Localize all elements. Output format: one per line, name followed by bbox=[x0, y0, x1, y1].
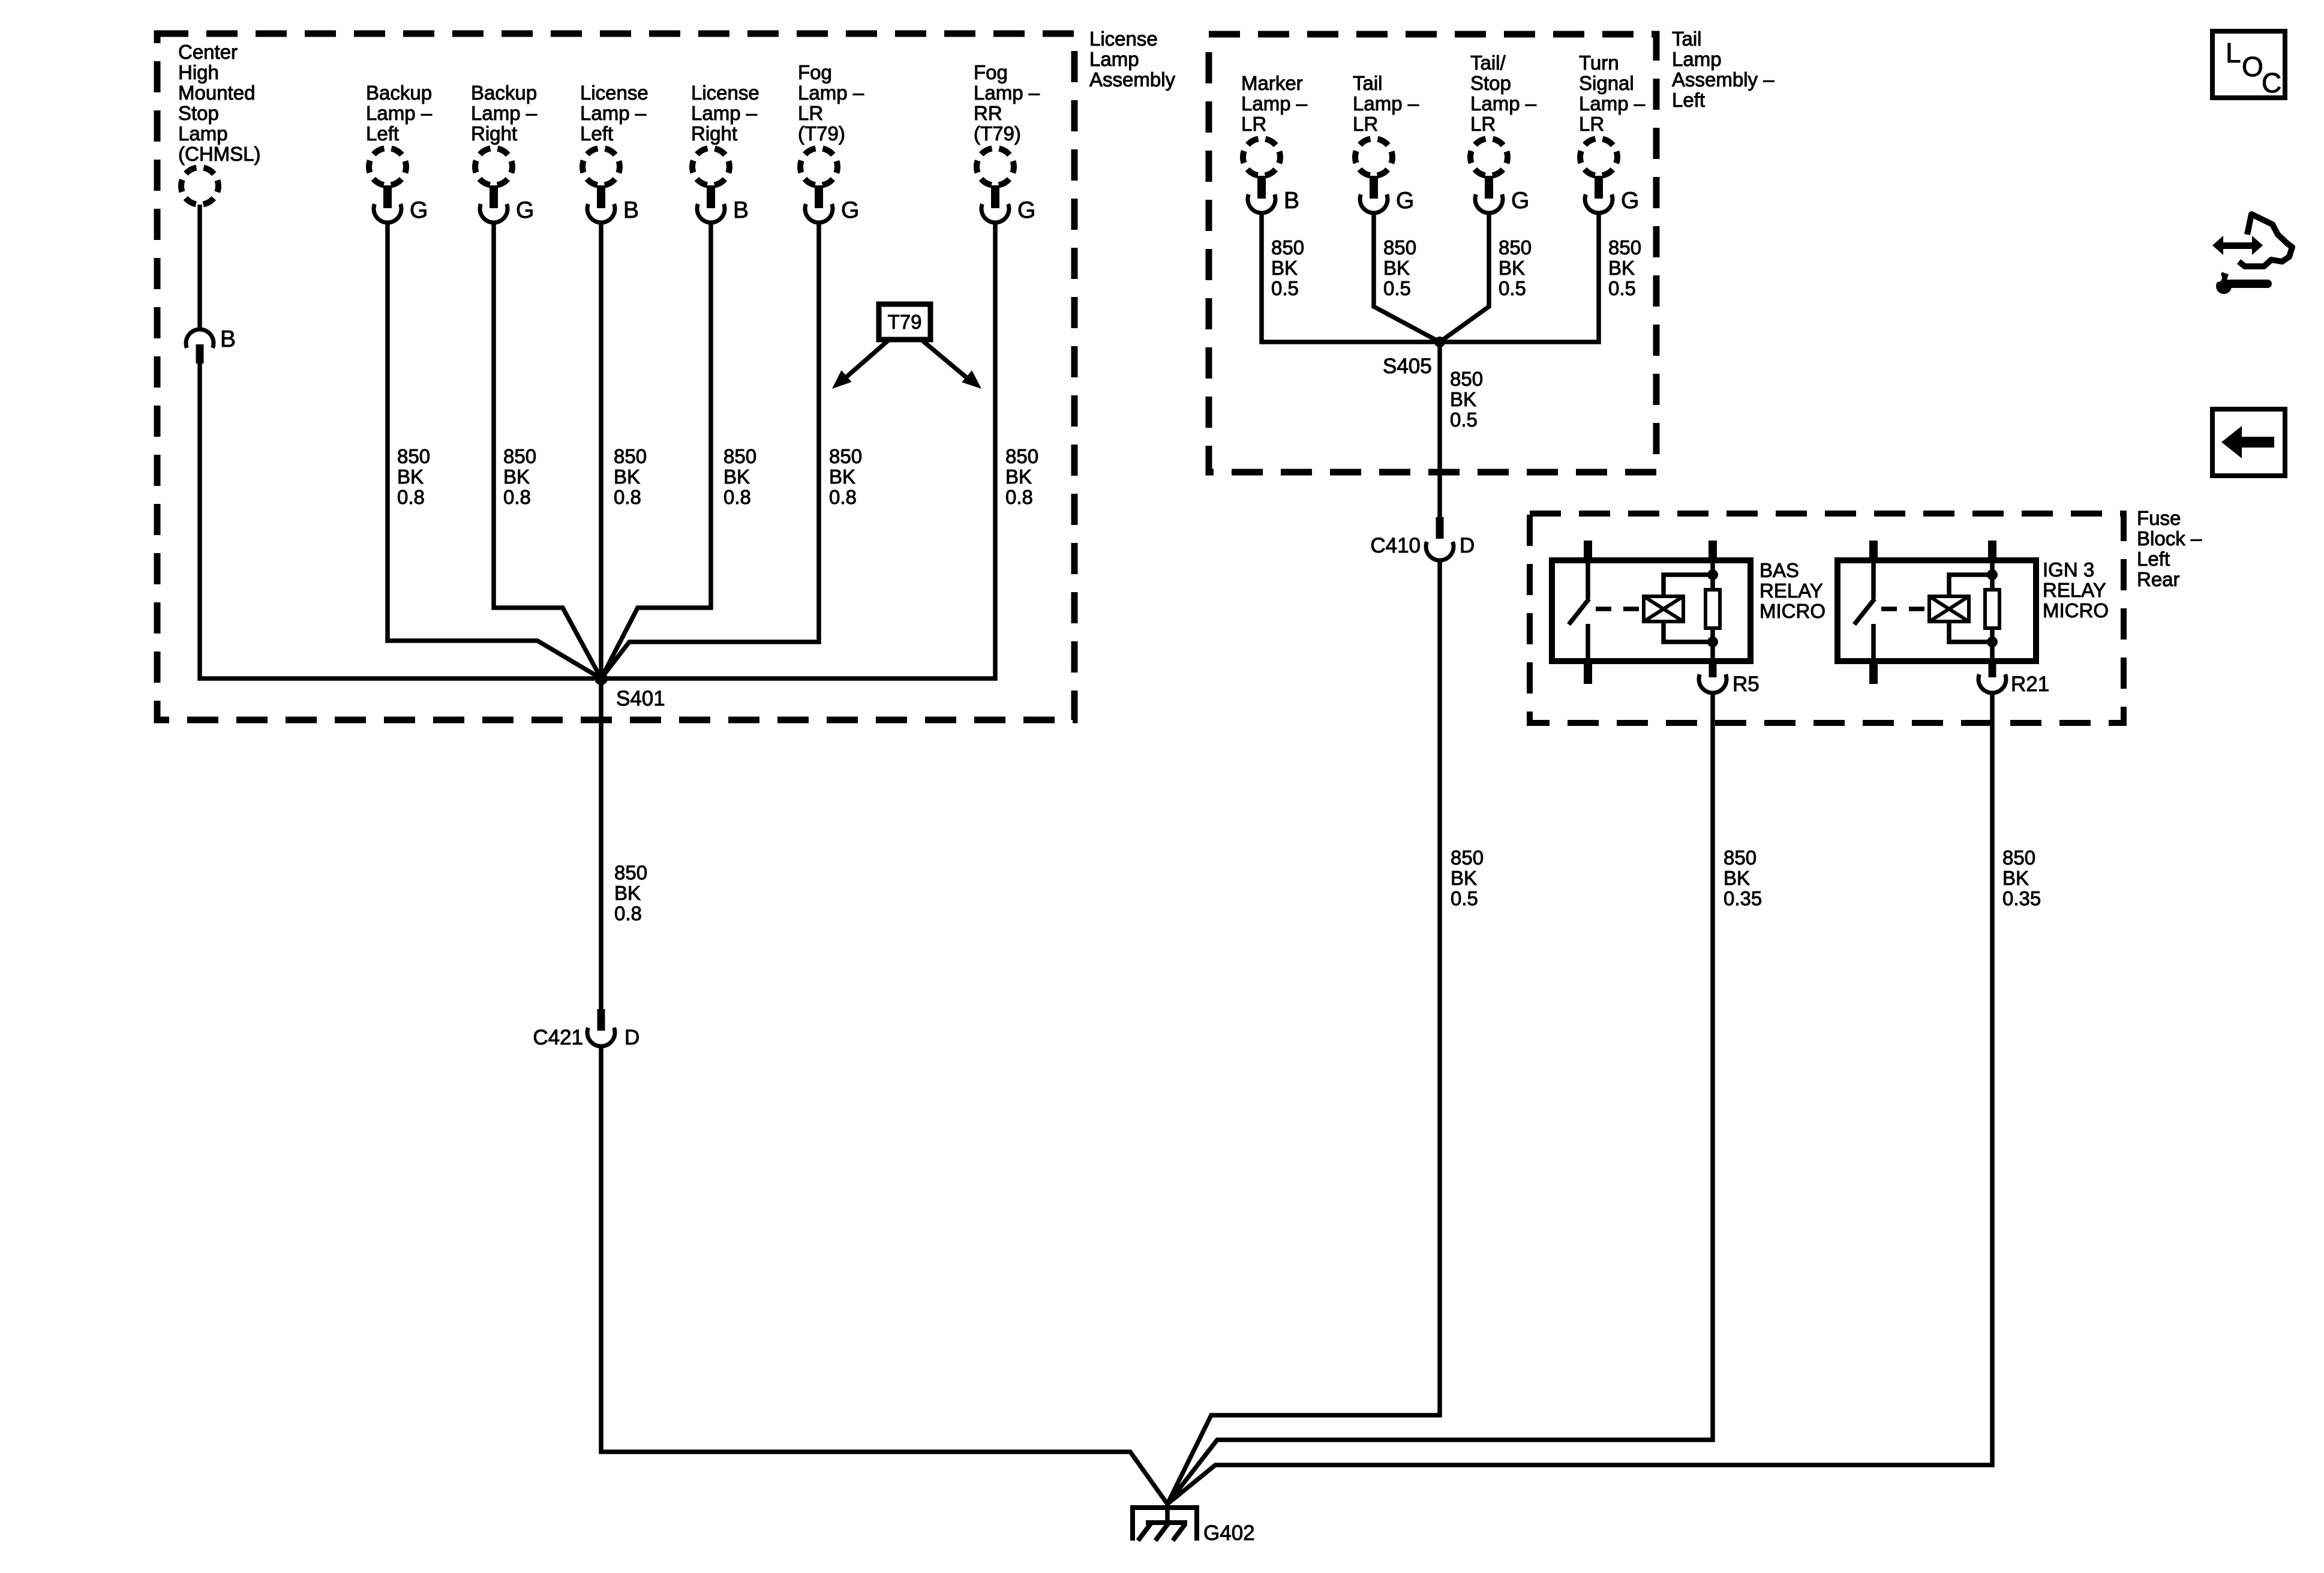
diagnostic icon wrench bbox=[2214, 272, 2268, 294]
svg-text:Stop: Stop bbox=[178, 102, 219, 124]
svg-text:License: License bbox=[691, 82, 759, 104]
svg-text:T79: T79 bbox=[888, 311, 922, 333]
svg-text:0.35: 0.35 bbox=[1724, 887, 1762, 909]
diagnostic icon double arrow bbox=[2212, 236, 2263, 255]
T79 callout box bbox=[879, 304, 930, 340]
connector C421 bbox=[533, 1009, 639, 1049]
wire label 850 BK 0.5 (below C410) bbox=[1451, 846, 1484, 909]
svg-text:850: 850 bbox=[829, 445, 862, 467]
svg-text:Block –: Block – bbox=[2137, 527, 2202, 550]
svg-text:BK: BK bbox=[829, 466, 855, 488]
wire C410 to ground G402 bbox=[1167, 560, 1440, 1504]
label S401 bbox=[616, 687, 665, 710]
svg-text:LR: LR bbox=[1470, 113, 1496, 135]
connector terminal G of Backup Lamp Left bbox=[374, 185, 428, 223]
connector terminal B of License Lamp Right bbox=[697, 185, 749, 223]
svg-text:RELAY: RELAY bbox=[1759, 580, 1823, 602]
wire label 850 BK 0.35 (R5) bbox=[1724, 846, 1762, 909]
lamp Fog Lamp RR label bbox=[974, 61, 1040, 145]
IGN 3 relay switch lower stub bbox=[1871, 624, 1876, 661]
svg-text:Right: Right bbox=[471, 122, 517, 145]
svg-text:0.8: 0.8 bbox=[503, 486, 531, 508]
svg-text:850: 850 bbox=[614, 861, 647, 884]
svg-text:Turn: Turn bbox=[1579, 52, 1619, 74]
lamp CHMSL label bbox=[178, 41, 261, 165]
svg-text:Lamp –: Lamp – bbox=[798, 82, 864, 104]
svg-text:0.5: 0.5 bbox=[1499, 277, 1526, 299]
svg-text:BK: BK bbox=[614, 466, 640, 488]
wire Fog Lamp LR to S401 bbox=[601, 223, 819, 679]
wire S401 to C421 bbox=[599, 679, 603, 1009]
BAS relay coil top lead bbox=[1664, 575, 1713, 596]
lamp Fog Lamp RR bbox=[977, 148, 1014, 185]
lamp Marker Lamp LR bbox=[1243, 139, 1280, 176]
svg-text:BK: BK bbox=[397, 466, 424, 488]
svg-text:S405: S405 bbox=[1383, 355, 1432, 378]
wire label 850 BK 0.5 (tail/stop) bbox=[1499, 236, 1532, 299]
svg-text:(CHMSL): (CHMSL) bbox=[178, 143, 261, 165]
BAS relay coil top pin bbox=[1709, 541, 1717, 563]
T79 arrow right bbox=[923, 341, 986, 395]
connector terminal B of Marker Lamp LR bbox=[1248, 176, 1299, 214]
lamp Fog Lamp LR label bbox=[798, 61, 864, 145]
diagnostic icon outline bbox=[2239, 214, 2292, 266]
svg-text:0.8: 0.8 bbox=[829, 486, 857, 508]
lamp Marker Lamp LR label bbox=[1241, 72, 1308, 135]
svg-text:Backup: Backup bbox=[366, 82, 432, 104]
svg-text:850: 850 bbox=[1450, 368, 1483, 390]
svg-text:Left: Left bbox=[366, 122, 399, 145]
svg-text:Right: Right bbox=[691, 122, 737, 145]
svg-text:0.5: 0.5 bbox=[1383, 277, 1411, 299]
svg-text:850: 850 bbox=[1499, 236, 1532, 259]
svg-text:R21: R21 bbox=[2011, 673, 2049, 696]
svg-text:(T79): (T79) bbox=[974, 122, 1021, 145]
ground G402 symbol bbox=[1133, 1504, 1197, 1541]
wire label 850 BK 0.5 (marker) bbox=[1271, 236, 1304, 299]
wire label 850 BK 0.5 (below S405) bbox=[1450, 368, 1483, 431]
svg-text:BK: BK bbox=[1450, 388, 1476, 410]
BAS relay output bottom pin bbox=[1709, 661, 1717, 677]
connector R21 bbox=[1978, 673, 2049, 696]
svg-text:MICRO: MICRO bbox=[1759, 600, 1825, 622]
svg-text:License: License bbox=[580, 82, 648, 104]
svg-text:850: 850 bbox=[503, 445, 536, 467]
svg-text:G402: G402 bbox=[1203, 1521, 1255, 1545]
splice S401 bbox=[594, 672, 608, 685]
svg-text:C: C bbox=[2262, 67, 2281, 98]
svg-text:850: 850 bbox=[1608, 236, 1641, 259]
wire C421 to ground G402 bbox=[601, 1046, 1167, 1504]
svg-text:Lamp –: Lamp – bbox=[691, 102, 758, 124]
Fuse Block label bbox=[2137, 507, 2202, 590]
svg-text:Lamp –: Lamp – bbox=[471, 102, 538, 124]
svg-text:0.5: 0.5 bbox=[1271, 277, 1299, 299]
svg-text:O: O bbox=[2242, 51, 2263, 82]
lamp Fog Lamp LR bbox=[800, 148, 837, 185]
BAS relay resistor leads bbox=[1710, 561, 1715, 661]
svg-text:Lamp: Lamp bbox=[178, 122, 228, 145]
IGN 3 relay switch top pin bbox=[1869, 541, 1878, 563]
svg-text:Tail: Tail bbox=[1672, 28, 1702, 50]
svg-text:850: 850 bbox=[1451, 846, 1484, 869]
label S405 bbox=[1383, 355, 1432, 378]
svg-text:G: G bbox=[1511, 188, 1529, 214]
wire CHMSL to splice S401 bbox=[200, 364, 594, 679]
svg-text:C410: C410 bbox=[1370, 534, 1421, 557]
svg-text:850: 850 bbox=[397, 445, 430, 467]
IGN 3 relay actuating link (dashed) bbox=[1881, 607, 1930, 611]
svg-text:0.5: 0.5 bbox=[1608, 277, 1636, 299]
svg-text:License: License bbox=[1089, 28, 1158, 50]
connector terminal G of Fog Lamp RR bbox=[981, 185, 1035, 223]
svg-text:0.8: 0.8 bbox=[397, 486, 425, 508]
svg-text:0.8: 0.8 bbox=[614, 902, 642, 924]
wire label 850 BK 0.8 (fog LR) bbox=[829, 445, 862, 508]
lamp License Lamp Right bbox=[692, 148, 729, 185]
svg-text:G: G bbox=[1396, 188, 1414, 214]
wire label 850 BK 0.5 (turn) bbox=[1608, 236, 1641, 299]
wire label 850 BK 0.35 (R21) bbox=[2002, 846, 2041, 909]
svg-text:850: 850 bbox=[723, 445, 756, 467]
svg-text:0.8: 0.8 bbox=[723, 486, 751, 508]
svg-text:RELAY: RELAY bbox=[2043, 579, 2106, 601]
svg-text:BK: BK bbox=[1499, 257, 1525, 279]
BAS relay switch blade bbox=[1569, 599, 1589, 625]
IGN 3 relay outline box bbox=[1837, 560, 2036, 661]
connector terminal G of Fog Lamp LR bbox=[805, 185, 859, 223]
wire CHMSL lamp to connector B bbox=[197, 205, 202, 328]
IGN 3 relay output bottom pin bbox=[1989, 661, 1996, 677]
IGN 3 relay coil top pin bbox=[1988, 541, 1996, 563]
svg-text:BK: BK bbox=[1383, 257, 1410, 279]
svg-text:LR: LR bbox=[1241, 113, 1266, 135]
svg-text:Fuse: Fuse bbox=[2137, 507, 2181, 529]
svg-text:Left: Left bbox=[2137, 548, 2170, 570]
svg-text:Lamp –: Lamp – bbox=[1353, 92, 1419, 115]
svg-text:Assembly: Assembly bbox=[1089, 68, 1176, 91]
wire Backup Lamp Right to S401 bbox=[494, 223, 601, 679]
svg-text:Mounted: Mounted bbox=[178, 82, 255, 104]
wire Tail Lamp to S405 bbox=[1374, 213, 1440, 342]
IGN 3 relay coil top lead bbox=[1949, 575, 1992, 596]
svg-text:C421: C421 bbox=[533, 1026, 583, 1049]
svg-text:IGN 3: IGN 3 bbox=[2043, 559, 2094, 581]
BAS relay label bbox=[1759, 559, 1825, 622]
lamp Tail/Stop Lamp LR label bbox=[1470, 52, 1537, 135]
svg-text:High: High bbox=[178, 61, 219, 83]
svg-text:MICRO: MICRO bbox=[2043, 599, 2109, 622]
svg-text:Tail: Tail bbox=[1353, 72, 1383, 94]
svg-text:Lamp: Lamp bbox=[1089, 48, 1139, 70]
lamp Tail/Stop Lamp LR bbox=[1470, 139, 1508, 176]
svg-text:Lamp –: Lamp – bbox=[1241, 92, 1308, 115]
lamp CHMSL bbox=[181, 167, 218, 205]
svg-text:Backup: Backup bbox=[471, 82, 537, 104]
svg-text:Tail/: Tail/ bbox=[1470, 52, 1506, 74]
License Lamp Assembly dashed box bbox=[157, 34, 1074, 720]
wire License Lamp Left to S401 bbox=[599, 223, 603, 679]
svg-text:BK: BK bbox=[1271, 257, 1298, 279]
Fuse Block - Left Rear dashed box bbox=[1530, 514, 2124, 723]
T79 arrow left bbox=[827, 341, 888, 395]
svg-text:Center: Center bbox=[178, 41, 238, 63]
wire label 850 BK 0.5 (tail) bbox=[1383, 236, 1416, 299]
svg-text:LR: LR bbox=[1579, 113, 1604, 135]
svg-text:Assembly –: Assembly – bbox=[1672, 68, 1774, 91]
svg-text:B: B bbox=[1284, 188, 1299, 214]
svg-text:Signal: Signal bbox=[1579, 72, 1634, 94]
wire Backup Lamp Left to S401 bbox=[388, 223, 601, 679]
wire Marker Lamp to S405 bbox=[1262, 213, 1440, 342]
svg-text:0.5: 0.5 bbox=[1450, 409, 1478, 431]
svg-text:B: B bbox=[623, 197, 639, 223]
svg-text:BK: BK bbox=[1451, 867, 1477, 889]
svg-text:G: G bbox=[841, 197, 859, 223]
svg-text:D: D bbox=[624, 1026, 639, 1049]
IGN 3 relay switch bottom pin bbox=[1869, 661, 1878, 684]
svg-text:(T79): (T79) bbox=[798, 122, 845, 145]
lamp Backup Lamp Right bbox=[475, 148, 512, 185]
svg-text:Marker: Marker bbox=[1241, 72, 1303, 94]
svg-text:BK: BK bbox=[723, 466, 750, 488]
svg-text:0.8: 0.8 bbox=[614, 486, 641, 508]
BAS relay switch bottom pin bbox=[1584, 661, 1592, 684]
svg-text:R5: R5 bbox=[1733, 673, 1759, 696]
wire label 850 BK 0.8 (backup right) bbox=[503, 445, 536, 508]
wire R21 to ground G402 bbox=[1167, 693, 1992, 1504]
svg-text:B: B bbox=[733, 197, 749, 223]
svg-text:D: D bbox=[1460, 534, 1475, 557]
svg-text:Left: Left bbox=[1672, 89, 1705, 111]
IGN 3 relay coil bbox=[1929, 596, 1969, 622]
label G402 bbox=[1203, 1521, 1255, 1545]
connector terminal G of Backup Lamp Right bbox=[480, 185, 534, 223]
svg-text:Lamp –: Lamp – bbox=[580, 102, 647, 124]
svg-text:S401: S401 bbox=[616, 687, 665, 710]
connector R5 bbox=[1699, 673, 1759, 696]
LOC icon box bbox=[2212, 31, 2285, 98]
lamp Turn Signal Lamp LR bbox=[1580, 139, 1617, 176]
BAS relay coil bbox=[1644, 596, 1683, 622]
splice S405 bbox=[1434, 337, 1445, 347]
svg-text:G: G bbox=[1017, 197, 1035, 223]
wire label 850 BK 0.8 (license right) bbox=[723, 445, 756, 508]
IGN 3 relay label bbox=[2043, 559, 2109, 622]
svg-text:Left: Left bbox=[580, 122, 613, 145]
lamp License Lamp Right label bbox=[691, 82, 759, 145]
wire S405 down to C410 bbox=[1437, 342, 1442, 517]
svg-text:BAS: BAS bbox=[1759, 559, 1799, 581]
wire R5 to ground G402 bbox=[1167, 693, 1713, 1504]
svg-text:B: B bbox=[220, 326, 236, 352]
svg-text:LR: LR bbox=[1353, 113, 1378, 135]
svg-text:L: L bbox=[2226, 37, 2241, 68]
lamp License Lamp Left label bbox=[580, 82, 648, 145]
svg-text:BK: BK bbox=[2002, 867, 2029, 889]
svg-text:850: 850 bbox=[614, 445, 647, 467]
svg-text:BK: BK bbox=[503, 466, 530, 488]
svg-text:0.5: 0.5 bbox=[1451, 887, 1478, 909]
svg-text:Lamp –: Lamp – bbox=[366, 102, 433, 124]
IGN 3 relay resistor bbox=[1985, 590, 1999, 628]
svg-text:Lamp –: Lamp – bbox=[974, 82, 1040, 104]
svg-text:RR: RR bbox=[974, 102, 1002, 124]
svg-text:850: 850 bbox=[1271, 236, 1304, 259]
svg-text:850: 850 bbox=[1005, 445, 1038, 467]
svg-text:LR: LR bbox=[798, 102, 823, 124]
svg-text:G: G bbox=[1621, 188, 1639, 214]
back arrow icon box bbox=[2212, 409, 2285, 476]
BAS relay coil bottom lead bbox=[1664, 622, 1713, 642]
svg-text:Fog: Fog bbox=[798, 61, 832, 83]
wire Fog Lamp RR to S401 bbox=[601, 223, 995, 679]
svg-text:850: 850 bbox=[1383, 236, 1416, 259]
svg-text:850: 850 bbox=[1724, 846, 1756, 869]
lamp Backup Lamp Left label bbox=[366, 82, 433, 145]
lamp License Lamp Left bbox=[582, 148, 620, 185]
wire Turn Signal Lamp to S405 bbox=[1440, 213, 1599, 342]
wire label 850 BK 0.8 (backup left) bbox=[397, 445, 430, 508]
connector terminal B of License Lamp Left bbox=[587, 185, 639, 223]
svg-text:0.35: 0.35 bbox=[2002, 887, 2041, 909]
BAS relay actuating link (dashed) bbox=[1596, 607, 1645, 611]
connector terminal G of Turn Signal Lamp LR bbox=[1585, 176, 1639, 214]
svg-text:Lamp: Lamp bbox=[1672, 48, 1722, 70]
BAS relay outline box bbox=[1552, 560, 1750, 661]
svg-text:BK: BK bbox=[1724, 867, 1750, 889]
BAS relay switch contact stub bbox=[1586, 563, 1590, 599]
wire License Lamp Right to S401 bbox=[601, 223, 711, 679]
wire label 850 BK 0.8 (license left) bbox=[614, 445, 647, 508]
svg-text:BK: BK bbox=[1005, 466, 1032, 488]
Tail Lamp Assembly label bbox=[1672, 28, 1774, 111]
svg-text:Stop: Stop bbox=[1470, 72, 1511, 94]
BAS relay junction node top bbox=[1707, 569, 1718, 580]
svg-text:G: G bbox=[516, 197, 534, 223]
svg-text:BK: BK bbox=[614, 882, 641, 904]
connector terminal G of Tail Lamp LR bbox=[1360, 176, 1414, 214]
connector C410 bbox=[1370, 517, 1475, 560]
svg-text:Rear: Rear bbox=[2137, 568, 2180, 590]
lamp Tail Lamp LR bbox=[1355, 139, 1392, 176]
svg-text:850: 850 bbox=[2002, 846, 2035, 869]
License Lamp Assembly label bbox=[1089, 28, 1176, 91]
connector terminal B of CHMSL bbox=[186, 326, 236, 364]
svg-text:Fog: Fog bbox=[974, 61, 1008, 83]
Tail Lamp Assembly dashed box bbox=[1209, 34, 1656, 472]
svg-text:Lamp –: Lamp – bbox=[1579, 92, 1646, 115]
svg-text:BK: BK bbox=[1608, 257, 1635, 279]
svg-text:Lamp –: Lamp – bbox=[1470, 92, 1537, 115]
connector terminal G of Tail/Stop Lamp LR bbox=[1475, 176, 1529, 214]
lamp Backup Lamp Right label bbox=[471, 82, 538, 145]
wire label 850 BK 0.8 (below C421) bbox=[614, 861, 647, 924]
svg-text:G: G bbox=[410, 197, 428, 223]
IGN 3 relay switch blade bbox=[1854, 599, 1875, 625]
IGN 3 relay switch contact stub bbox=[1871, 563, 1876, 599]
svg-text:0.8: 0.8 bbox=[1005, 486, 1033, 508]
IGN 3 relay junction node bottom bbox=[1987, 637, 1998, 647]
BAS relay junction node bottom bbox=[1707, 637, 1718, 647]
wire Tail/Stop Lamp to S405 bbox=[1440, 213, 1489, 342]
IGN 3 relay coil bottom lead bbox=[1949, 622, 1992, 642]
wire label 850 BK 0.8 (fog RR) bbox=[1005, 445, 1038, 508]
IGN 3 relay resistor leads bbox=[1990, 561, 1995, 661]
lamp Turn Signal Lamp LR label bbox=[1579, 52, 1646, 135]
lamp Tail Lamp LR label bbox=[1353, 72, 1419, 135]
BAS relay resistor bbox=[1706, 590, 1720, 628]
BAS relay switch lower stub bbox=[1586, 624, 1590, 661]
BAS relay switch top pin bbox=[1584, 541, 1592, 563]
lamp Backup Lamp Left bbox=[369, 148, 406, 185]
IGN 3 relay junction node top bbox=[1987, 569, 1998, 580]
